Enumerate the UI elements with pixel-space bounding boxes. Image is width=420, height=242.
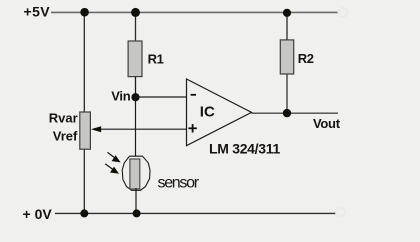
svg-text:Vin: Vin xyxy=(111,89,130,104)
svg-text:R2: R2 xyxy=(298,51,314,66)
node: +5V / Rvar junction xyxy=(80,8,89,17)
sensor LDR body (resistor box inside) xyxy=(130,159,140,189)
node: 0V / sensor junction xyxy=(133,209,141,217)
sensor light arrow 2 xyxy=(105,164,119,174)
wire: right branch from +5V rail down to R2 top xyxy=(286,13,288,40)
wire: Rvar bottom to 0V rail xyxy=(83,150,85,214)
wire: op-amp output to Vout xyxy=(252,112,339,114)
op-amp U1 triangle xyxy=(187,79,252,146)
wire: Rvar wiper to op-amp non-inverting input xyxy=(98,128,187,130)
svg-text:+ 0V: + 0V xyxy=(23,206,53,222)
node: +5V / R2 junction xyxy=(283,9,291,17)
op-amp inverting input marker (-) xyxy=(191,94,196,96)
node: output / R2 junction xyxy=(283,109,291,117)
+5V rail (top supply wire) xyxy=(51,11,338,13)
op-amp non-inverting input marker (+) xyxy=(188,124,196,132)
resistor R2 xyxy=(280,40,293,74)
0V rail (bottom supply wire) xyxy=(55,212,337,214)
svg-text:R1: R1 xyxy=(148,51,164,66)
sensor LDR envelope (ellipse) xyxy=(122,156,150,190)
sensor light arrow 1 xyxy=(108,152,121,162)
wire: R2 bottom to output node xyxy=(286,74,288,113)
svg-text:Vref: Vref xyxy=(53,128,78,143)
wire: left branch from +5V rail down to Rvar top xyxy=(83,12,85,112)
resistor R1 xyxy=(128,41,142,77)
faint artifact at +5V rail end xyxy=(339,8,348,17)
wire: sensor bottom to 0V rail xyxy=(135,188,137,213)
svg-text:LM 324/311: LM 324/311 xyxy=(209,141,280,157)
svg-text:Vout: Vout xyxy=(313,116,341,131)
svg-text:IC: IC xyxy=(200,103,215,120)
potentiometer Rvar xyxy=(80,112,91,149)
svg-text:+5V: +5V xyxy=(24,3,51,19)
node: +5V / R1 junction xyxy=(131,8,140,17)
node: 0V / Rvar junction xyxy=(80,209,88,217)
node Vin xyxy=(131,93,139,101)
wiper arrowhead into Rvar xyxy=(91,126,101,132)
wire: middle branch from +5V rail down to R1 top xyxy=(135,12,137,41)
wire: Vin node to op-amp inverting input xyxy=(136,96,187,98)
faint artifact at 0V rail end xyxy=(336,208,345,217)
wire: Vin node down to sensor top xyxy=(135,97,137,160)
wire: R1 bottom to Vin node xyxy=(135,77,137,98)
svg-text:sensor: sensor xyxy=(158,174,200,191)
svg-text:Rvar: Rvar xyxy=(49,110,78,125)
